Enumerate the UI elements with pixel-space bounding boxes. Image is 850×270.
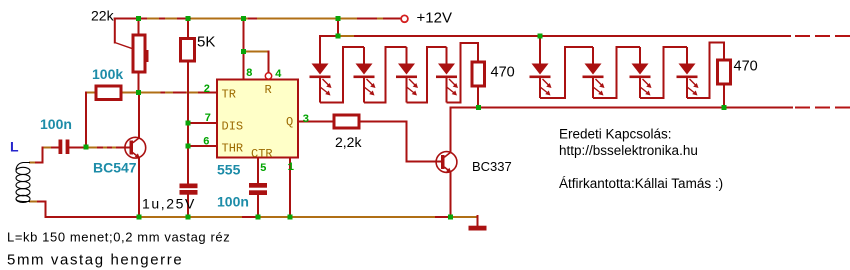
- wire 100n cap right lead: [70, 147, 87, 149]
- wire BC547 collector up: [138, 93, 140, 139]
- wire D6 to riser: [593, 47, 640, 98]
- wire D5 to riser: [540, 47, 593, 98]
- svg-text:555: 555: [217, 162, 241, 178]
- wire BC547 base lead red dash a: [98, 147, 102, 149]
- wire coil bottom lead red: [38, 201, 46, 203]
- svg-text:100n: 100n: [40, 116, 72, 132]
- wire +12V main rail red dash e: [178, 18, 190, 20]
- wire +12V main rail red dash d: [160, 18, 164, 20]
- wire TR net olive right: [121, 92, 199, 94]
- wire coil top lead red: [36, 162, 43, 164]
- wire +12V main rail olive base: [115, 18, 401, 20]
- resistor 2,2k body: [334, 115, 359, 128]
- LED D7: [630, 47, 652, 98]
- wire pot bottom lead to TR node: [138, 72, 140, 93]
- svg-text:8: 8: [246, 68, 253, 80]
- wire LED top rail: [320, 35, 790, 37]
- wire 22k wiper stub: [114, 19, 116, 43]
- node junction rail x138: [136, 16, 141, 21]
- node junction R branch: [241, 49, 246, 54]
- wire pin3 Q: [298, 121, 334, 123]
- node junction rail x243: [241, 16, 246, 21]
- wire R branch down: [268, 52, 270, 74]
- wire TR net red dash b: [174, 92, 180, 94]
- inductor L coil loops: [16, 163, 30, 203]
- wire 2,2k to BC337 base: [359, 122, 441, 162]
- resistor 5K body: [181, 39, 195, 62]
- wire pot top lead: [138, 19, 140, 36]
- node junction LED rail x338: [336, 34, 341, 39]
- wire string2 feed: [539, 36, 541, 64]
- LED D4: [436, 47, 458, 103]
- wire R branch olive: [244, 51, 269, 53]
- wire coil top corner vertical: [42, 148, 44, 163]
- svg-text:5K: 5K: [197, 34, 215, 51]
- wire +12V main rail red segment a: [249, 18, 256, 20]
- svg-text:+12V: +12V: [417, 10, 452, 27]
- svg-text:BC547: BC547: [93, 160, 137, 176]
- ground symbol: [469, 226, 487, 231]
- svg-text:100k: 100k: [92, 66, 123, 82]
- wire LED top rail dashed continuation: [796, 35, 850, 37]
- wire ground rail olive part: [141, 216, 451, 218]
- svg-text:L=kb 150 menet;0,2 mm vastag r: L=kb 150 menet;0,2 mm vastag réz: [7, 230, 230, 245]
- wire 470 string1 bottom lead: [477, 86, 479, 108]
- potentiometer 22k body: [133, 35, 145, 72]
- wire node x86 vertical: [85, 93, 87, 148]
- node junction TR: [136, 90, 141, 95]
- wire +12V main rail red segment c: [384, 18, 401, 20]
- capacitor 1u,25V plates: [180, 184, 198, 195]
- wire D1 to riser: [320, 47, 364, 103]
- wire TR net red to pin2: [199, 92, 217, 94]
- wire 1u cap bottom: [187, 195, 189, 218]
- potentiometer 22k wiper bar: [146, 50, 149, 62]
- svg-text:Átfirkantotta:Kállai Tamás :): Átfirkantotta:Kállai Tamás :): [559, 176, 723, 191]
- transistor Q1 BC547: [125, 137, 146, 158]
- svg-text:THR: THR: [222, 142, 244, 156]
- wire D2 to riser: [364, 47, 407, 103]
- wire BC547 emitter down: [138, 158, 140, 217]
- node junction DIS: [186, 121, 191, 126]
- node junction gnd x188: [186, 215, 191, 220]
- node junction THR: [186, 144, 191, 149]
- resistor 100k body: [96, 86, 121, 100]
- svg-text:470: 470: [491, 65, 515, 81]
- resistor 470 body string1: [472, 62, 485, 86]
- wire 100n pin5 cap bottom: [257, 195, 259, 217]
- wire +12V main rail red segment left: [115, 18, 146, 20]
- op-amp/IC 555 body: [217, 80, 298, 158]
- svg-text:3: 3: [303, 114, 310, 126]
- wire coil bottom corner down: [45, 202, 47, 218]
- svg-text:1u,25V: 1u,25V: [142, 196, 196, 212]
- svg-text:BC337: BC337: [472, 159, 512, 174]
- capacitor 100n left plates: [59, 140, 70, 155]
- terminal +12V circle: [401, 15, 408, 22]
- IC 555 pin 4 inversion bubble: [265, 73, 271, 79]
- node junction LED rail x540: [538, 34, 543, 39]
- svg-text:4: 4: [275, 69, 282, 81]
- node junction bottom LED rail 470 string2: [722, 105, 727, 110]
- wire 5K bottom column: [187, 61, 189, 184]
- wire ground stub olive: [451, 216, 478, 218]
- LED D5: [530, 64, 552, 99]
- wire +12V main rail red segment b: [358, 18, 376, 20]
- svg-text:DIS: DIS: [222, 120, 244, 134]
- svg-text:Eredeti Kapcsolás:: Eredeti Kapcsolás:: [559, 127, 672, 142]
- wire 5K top lead: [187, 19, 189, 39]
- svg-text:1: 1: [288, 162, 295, 174]
- LED D1: [310, 36, 332, 103]
- svg-text:http://bsselektronika.hu: http://bsselektronika.hu: [559, 143, 698, 158]
- wire TR net red dash c: [182, 92, 185, 94]
- wire THR pin6: [188, 145, 217, 147]
- wire LED bottom rail dashed continuation: [796, 107, 850, 109]
- resistor 470 body string2: [718, 60, 731, 84]
- wire D4 to resistor 470 string1: [447, 43, 479, 103]
- svg-text:22k: 22k: [91, 8, 115, 24]
- wire 100n cap left lead olive: [43, 147, 52, 149]
- wire coil bottom lead olive: [30, 201, 38, 203]
- node junction gnd x258: [256, 215, 261, 220]
- transistor Q2 BC337: [436, 152, 457, 173]
- wire BC547 base lead red: [117, 147, 130, 149]
- svg-text:100n: 100n: [217, 194, 249, 210]
- svg-text:CTR: CTR: [251, 147, 273, 161]
- LED D2: [354, 47, 376, 103]
- node junction cap base: [84, 145, 89, 150]
- wire pin5 CTR down: [257, 158, 259, 184]
- wire BC547 base lead olive: [86, 147, 117, 149]
- node junction gnd x290: [288, 215, 293, 220]
- wire DIS pin7: [188, 122, 217, 124]
- svg-text:5: 5: [260, 163, 267, 175]
- wire BC547 base lead red dash b: [108, 147, 111, 149]
- wire D8 to resistor 470 string2: [687, 43, 724, 99]
- wire 100n cap left lead red: [52, 147, 59, 149]
- svg-text:6: 6: [203, 137, 210, 149]
- wire pin8: [243, 19, 245, 80]
- svg-text:470: 470: [734, 59, 758, 75]
- wire D3 to riser: [407, 47, 447, 103]
- wire 22k wiper diagonal: [115, 43, 146, 54]
- wire TR net red dash: [162, 92, 165, 94]
- wire 470 string2 bottom lead: [723, 84, 725, 108]
- wire TR net olive: [86, 92, 96, 94]
- capacitor 100n pin5 plates: [249, 183, 267, 195]
- svg-text:5mm vastag hengerre: 5mm vastag hengerre: [7, 252, 183, 269]
- node junction gnd x450: [448, 215, 453, 220]
- node junction gnd x139: [137, 215, 142, 220]
- wire ground rail red dash b: [436, 216, 450, 218]
- svg-text:2: 2: [204, 84, 211, 96]
- wire coil top lead olive: [30, 162, 36, 164]
- svg-text:2,2k: 2,2k: [335, 134, 362, 150]
- wire pin1 down: [289, 158, 291, 218]
- node junction bottom LED rail 470 string1: [476, 105, 481, 110]
- wire LED bottom rail: [451, 107, 793, 109]
- svg-text:TR: TR: [222, 88, 236, 102]
- node junction rail x188: [186, 16, 191, 21]
- LED D8: [677, 47, 699, 98]
- wire ground rail red part: [46, 216, 142, 218]
- LED D6: [583, 47, 605, 98]
- wire ground rail red dash a: [243, 216, 256, 218]
- svg-text:L: L: [10, 139, 19, 155]
- node junction rail x338: [336, 16, 341, 21]
- LED D3: [396, 47, 418, 103]
- wire BC337 collector up: [450, 108, 452, 153]
- wire BC337 emitter down: [450, 172, 452, 217]
- svg-text:Q: Q: [286, 115, 293, 129]
- svg-text:7: 7: [205, 113, 212, 125]
- wire rail riser to LED rail: [337, 19, 339, 37]
- svg-text:R: R: [265, 83, 272, 97]
- wire ground stub down: [477, 216, 479, 226]
- wire LED rail olive dash: [341, 35, 353, 37]
- wire D7 to riser: [640, 47, 687, 98]
